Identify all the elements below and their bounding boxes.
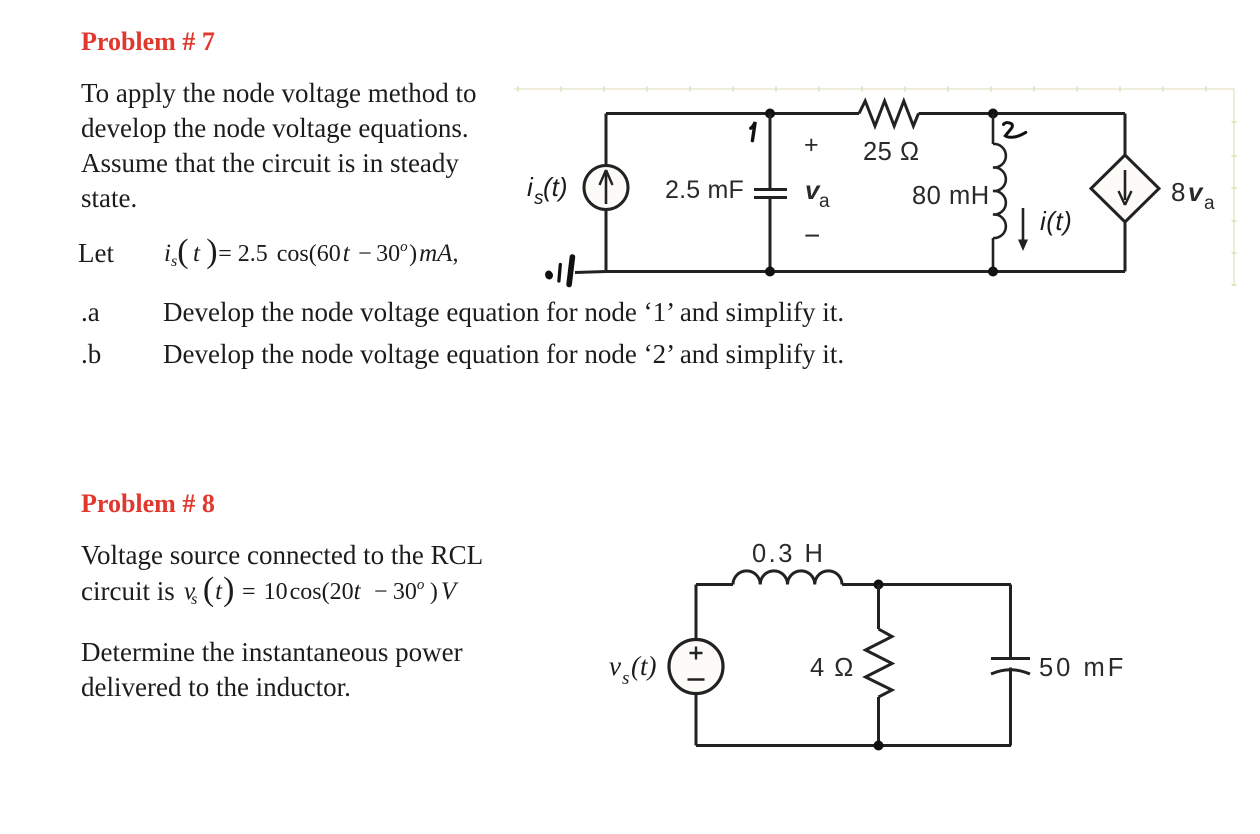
label 0.3 H: [752, 540, 825, 568]
wire top: [606, 112, 1125, 115]
ruler top line: [514, 88, 1235, 90]
wire top: [696, 583, 1011, 586]
svg-text:a: a: [1204, 193, 1215, 214]
capacitor C2 50 mF: [991, 659, 1030, 746]
current source U1 is(t): [584, 166, 628, 210]
label vs(t): [609, 651, 656, 689]
ruler right line: [1233, 89, 1235, 285]
label 80 mH: [912, 182, 990, 210]
label + va -: [804, 131, 830, 251]
svg-text:i: i: [527, 172, 534, 202]
node bottom-left junction: [765, 267, 775, 277]
inductor L1 80 mH: [993, 114, 1006, 272]
wire bottom: [575, 272, 1125, 273]
wire left upper: [695, 585, 698, 640]
Problem 7 heading: [81, 29, 215, 55]
node 2 junction: [988, 109, 998, 119]
label i(t): [1040, 206, 1072, 236]
svg-text:s: s: [622, 668, 629, 689]
label 8va: [1171, 177, 1215, 214]
item b: [81, 341, 101, 368]
ruler right ticks: [1232, 122, 1237, 285]
svg-text:(t): (t): [543, 172, 568, 202]
Let equation: [78, 240, 114, 267]
dependent source U2 8va: [1091, 155, 1159, 222]
resistor R2 4 ohm: [866, 585, 893, 746]
item a: [81, 299, 100, 326]
wire left lower: [605, 210, 608, 272]
svg-text:(t): (t): [631, 651, 656, 681]
node 1 handwritten label: [751, 122, 755, 141]
wire diamond bottom: [1124, 222, 1127, 272]
ground reference mark (handwritten): [544, 257, 572, 285]
svg-text:80 mH: 80 mH: [912, 182, 990, 210]
svg-text:50 mF: 50 mF: [1039, 654, 1126, 682]
label is(t): [527, 172, 568, 209]
ruler top ticks: [518, 87, 1206, 92]
label 4 ohm: [810, 654, 855, 682]
node 2 handwritten label: [1004, 123, 1026, 138]
node top junction: [874, 580, 884, 590]
inductor L2 0.3 H: [733, 571, 842, 585]
wire diamond top: [1124, 114, 1127, 156]
node bottom junction: [874, 741, 884, 751]
svg-text:8: 8: [1171, 177, 1185, 207]
Problem 7 paragraph: [81, 80, 477, 107]
svg-text:+: +: [804, 131, 819, 159]
Problem 8 heading: [81, 491, 215, 517]
svg-text:v: v: [609, 651, 621, 681]
label 50 mF: [1039, 654, 1126, 682]
svg-text:4 Ω: 4 Ω: [810, 654, 855, 682]
svg-text:i(t): i(t): [1040, 206, 1072, 236]
label 25 ohm: [863, 138, 920, 166]
node bottom-right junction: [988, 267, 998, 277]
wire right upper: [1009, 585, 1012, 659]
wire left upper: [605, 114, 608, 166]
svg-text:25 Ω: 25 Ω: [863, 138, 920, 166]
voltage source V1 vs(t): [669, 640, 723, 694]
Problem 8 paragraph: [81, 542, 483, 569]
svg-text:2.5 mF: 2.5 mF: [665, 176, 744, 204]
svg-text:a: a: [819, 191, 830, 212]
node 1 junction: [765, 109, 775, 119]
svg-text:−: −: [804, 220, 820, 251]
resistor R1 25 ohm: [859, 101, 919, 126]
label 2.5 mF: [665, 176, 744, 204]
svg-text:0.3 H: 0.3 H: [752, 540, 825, 568]
svg-text:v: v: [1188, 177, 1204, 207]
wire bottom: [696, 744, 1011, 747]
capacitor C1 2.5 mF: [754, 114, 787, 272]
current arrow i(t): [1018, 208, 1028, 251]
wire left lower: [695, 694, 698, 746]
